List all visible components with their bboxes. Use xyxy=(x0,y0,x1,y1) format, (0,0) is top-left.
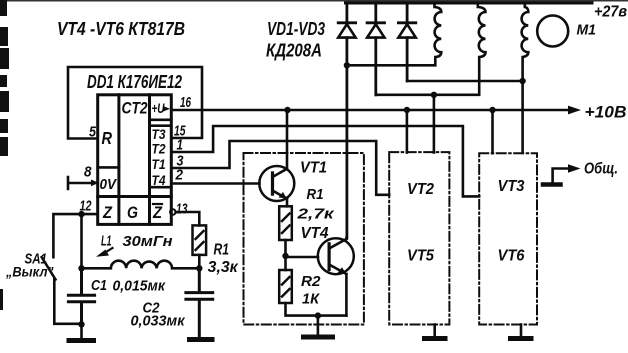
wire pin1 T2 to VT3 box xyxy=(171,126,479,196)
svg-text:0V: 0V xyxy=(100,177,118,193)
ground VT3 box xyxy=(520,325,523,338)
wire node to VT4 base xyxy=(286,256,319,259)
capacitor C1 0.015uF xyxy=(68,268,94,324)
op IC DD1 body xyxy=(98,95,172,225)
motor winding coil B xyxy=(376,3,486,95)
+10V arrow xyxy=(568,106,581,115)
node rail/VT1 collector xyxy=(284,107,290,113)
dashed box VT1/VT4 xyxy=(244,153,364,325)
svg-text:VT1: VT1 xyxy=(300,160,327,177)
capacitor C2 0.033uF xyxy=(186,268,213,337)
wire pin16 +10V rail xyxy=(171,109,568,112)
svg-text:5: 5 xyxy=(89,124,97,141)
0V pin marker arrow xyxy=(91,180,99,187)
svg-text:CT2: CT2 xyxy=(122,100,148,118)
svg-text:C1: C1 xyxy=(91,278,107,294)
node C1/SA1/ground xyxy=(78,321,84,327)
svg-text:8: 8 xyxy=(84,164,92,181)
svg-text:16: 16 xyxy=(180,94,191,111)
svg-text:Общ.: Общ. xyxy=(584,161,618,178)
svg-text:0,033мк: 0,033мк xyxy=(131,313,186,330)
svg-text:Z: Z xyxy=(102,204,113,222)
wire junction down to C1/L1 node xyxy=(80,214,83,268)
wire pin12 to SA1 xyxy=(53,214,97,257)
IC texts xyxy=(100,100,166,223)
svg-text:VD1-VD3: VD1-VD3 xyxy=(267,19,325,39)
svg-text:VT4: VT4 xyxy=(301,225,329,242)
wire coilB node down to VT2 box xyxy=(433,95,436,153)
node coilB wire/VT2 right xyxy=(431,92,437,98)
resistor R2 1k xyxy=(279,270,292,303)
transistor VT1 xyxy=(259,110,294,206)
wire R1 to node xyxy=(284,240,287,270)
L1 tuning arrow xyxy=(102,248,113,255)
diode VD2 xyxy=(367,3,384,95)
wire pin3 T1 to VT2 box xyxy=(171,141,389,195)
motor winding coil C xyxy=(522,3,529,153)
wire R2 to bottom xyxy=(286,303,347,316)
pin 13 inversion bubble xyxy=(170,209,176,215)
svg-text:30мГн: 30мГн xyxy=(123,233,173,250)
svg-text:VT2: VT2 xyxy=(407,181,434,198)
svg-text:VT6: VT6 xyxy=(498,248,525,265)
svg-text:G: G xyxy=(127,204,138,222)
transistor VT4 xyxy=(318,238,354,316)
wire R1 bottom to L1 node xyxy=(198,255,201,268)
diode VD1 xyxy=(338,3,355,238)
svg-text:0,015мк: 0,015мк xyxy=(113,278,167,295)
resistor R1 2.7k xyxy=(279,206,292,240)
svg-text:DD1 К176ИЕ12: DD1 К176ИЕ12 xyxy=(87,72,182,92)
svg-text:1К: 1К xyxy=(302,291,321,308)
svg-text:КД208А: КД208А xyxy=(266,41,322,61)
inductor L1 30mH xyxy=(82,261,200,269)
svg-text:+27в: +27в xyxy=(594,4,627,21)
diode VD3 xyxy=(398,3,415,81)
resistor R1 3.3k xyxy=(193,225,207,255)
svg-text:R: R xyxy=(102,128,113,148)
+U pin marker arrow xyxy=(163,106,170,112)
top rail +27V xyxy=(346,2,593,5)
wire rail to VT3 box left xyxy=(491,110,494,153)
node coilC/VD3 xyxy=(519,78,525,84)
svg-text:T4: T4 xyxy=(152,172,166,188)
scan edge artifact top line xyxy=(0,0,628,2)
scan edge artifact left bar xyxy=(0,0,9,310)
node L1 right xyxy=(196,265,202,271)
wire VD3 to coil C xyxy=(407,80,522,83)
svg-text:М1: М1 xyxy=(577,23,597,39)
svg-text:VT4 -VT6 КТ817В: VT4 -VT6 КТ817В xyxy=(57,19,185,39)
wire rail to VT2 box left xyxy=(406,110,409,153)
wire pin13 to R1 3.3k xyxy=(176,212,200,225)
svg-text:VT3: VT3 xyxy=(498,178,525,195)
node VD1/coil A wire xyxy=(344,62,350,68)
IC column dividers xyxy=(119,95,150,225)
common terminal Obshch xyxy=(553,169,568,184)
svg-text:13: 13 xyxy=(176,201,188,218)
svg-text:T1: T1 xyxy=(152,156,166,172)
node bottom wire/ground xyxy=(315,312,321,318)
ground below C1 xyxy=(80,324,83,341)
node rail/VT2 left xyxy=(404,107,410,113)
IC row lines xyxy=(98,195,172,198)
Zbar overline xyxy=(153,203,162,205)
node L1 left xyxy=(78,265,84,271)
ground VT1 box xyxy=(317,316,320,336)
svg-text:„Выкл": „Выкл" xyxy=(5,264,54,280)
svg-text:T2: T2 xyxy=(152,141,166,157)
node rail/VT3 left xyxy=(489,107,495,113)
pin number labels xyxy=(80,94,192,218)
switch SA1 xyxy=(42,257,82,324)
svg-text:2,7к: 2,7к xyxy=(296,206,335,223)
svg-text:R1: R1 xyxy=(214,242,230,259)
svg-text:R1: R1 xyxy=(307,186,324,203)
dashed box VT3/VT6 xyxy=(479,153,537,324)
ground below C2 xyxy=(190,337,213,342)
svg-text:+10В: +10В xyxy=(585,103,627,122)
motor winding coil A xyxy=(347,3,441,65)
svg-text:3,3к: 3,3к xyxy=(208,259,239,276)
ground VT2 box xyxy=(433,325,436,338)
node R1/R2/VT4 base xyxy=(282,253,288,259)
wire pin2 T4 to VT1 base xyxy=(171,182,259,185)
pin 8 stub wire with end tick xyxy=(68,177,98,189)
svg-text:R2: R2 xyxy=(301,273,321,290)
svg-text:Z: Z xyxy=(152,204,163,222)
svg-text:L1: L1 xyxy=(101,234,112,250)
svg-text:VT5: VT5 xyxy=(407,248,434,265)
IC DD1 label box loop (pin5 to pin15 wire) xyxy=(68,67,202,139)
dashed box VT2/VT5 xyxy=(389,152,449,324)
node pin12/C1 junction xyxy=(78,211,84,217)
motor M1 xyxy=(537,16,568,47)
